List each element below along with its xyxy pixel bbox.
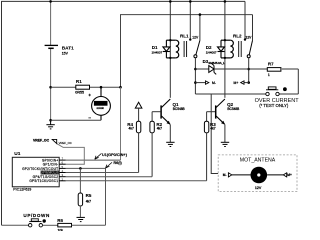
svg-text:4k7: 4k7 [210,127,215,131]
diode D1 (flyback) [163,40,170,58]
wire pin5 GP2 row [66,168,106,225]
svg-text:GP3/MCLR: GP3/MCLR [40,171,59,175]
svg-text:M+: M+ [287,173,292,177]
svg-text:R6(t): R6(t) [114,161,122,165]
pin stubs U1 [59,160,66,181]
svg-text:12V: 12V [246,36,253,40]
wire switch to R6 [43,224,58,226]
relay RL2 pivot column (M+ net) [248,58,250,84]
net flag M+ [244,82,249,84]
svg-text:1: 1 [268,73,270,77]
svg-text:1N4007: 1N4007 [206,51,217,55]
transistor Q1 [162,99,171,108]
relay RL1 coil [166,40,186,58]
svg-text:12V: 12V [192,35,199,39]
svg-text:VREF_OC: VREF_OC [33,139,50,143]
meter M1 [92,87,111,120]
relay RL1 pivot column (M- net) [194,58,196,94]
motor [250,167,267,184]
svg-text:VREF_OC: VREF_OC [59,141,72,145]
svg-text:12V: 12V [255,186,262,190]
transistor Q2 [216,99,225,108]
svg-text:MOT_ANTENA: MOT_ANTENA [240,157,276,163]
svg-text:U1(GP0/CIN+): U1(GP0/CIN+) [102,153,127,157]
wire R6 to pin5 column [72,224,106,226]
switch UP/DOWN [29,219,43,227]
port M- [228,173,231,177]
svg-text:SMBJ5.0A_L: SMBJ5.0A_L [208,61,225,65]
relay RL2 contact left [244,1,246,39]
wire pin7 GP0 row [66,159,121,161]
svg-text:15V: 15V [62,52,69,56]
resistor R3 [206,112,208,122]
svg-text:BC548B: BC548B [173,107,185,111]
svg-text:R7: R7 [268,61,274,66]
ground (battery) [46,120,54,129]
svg-text:R6: R6 [57,218,63,223]
node battery top [49,0,52,3]
svg-text:4k7: 4k7 [86,199,91,203]
resistor R5 [79,168,81,193]
resistor R1 [76,85,90,89]
wire R7 row [249,68,268,70]
svg-text:BAT1: BAT1 [62,46,74,51]
pin GP3/MCLR highlighted [41,171,59,175]
net flag M- [195,82,205,84]
svg-text:M-: M- [212,81,216,85]
MOT_ANTENA block [218,155,297,192]
svg-text:0R55: 0R55 [75,91,84,95]
relay RL1 arm [196,40,200,54]
svg-text:GP5/T1CKI/OSC1: GP5/T1CKI/OSC1 [29,179,58,183]
wire second rail (motor supply) [121,15,253,88]
wire meter return [51,119,101,121]
callout arrow U1(GP0/CIN+) [95,153,102,159]
relay RL2 coil [221,40,241,58]
svg-text:R5: R5 [86,193,92,198]
wire Q1 emitter [169,124,171,142]
wire pin4 GP3 row [66,172,139,174]
svg-text:R1: R1 [76,79,82,84]
switch OVER CURRENT [266,87,279,96]
wire Q2 emitter [224,124,226,142]
diode D2 (flyback) [218,40,225,58]
relay RL2 coil column [224,1,226,97]
IC U1 PIC12F629 [12,157,59,187]
resistor R6 [58,223,72,227]
svg-text:D1: D1 [152,45,158,50]
svg-text:PIC12F629: PIC12F629 [13,188,31,192]
relay RL1 contact left [189,1,191,39]
svg-text:(* TEST ONLY): (* TEST ONLY) [259,103,289,108]
resistor R2 [151,112,153,122]
port M+ [283,173,286,177]
node battery/R1 [49,86,52,89]
wire shunt row [51,86,76,88]
wire top +15V rail [2,1,246,225]
svg-text:RL2: RL2 [233,33,242,38]
relay RL1 contact right [199,15,201,41]
node meter top [100,86,103,89]
battery BAT1 [50,1,52,120]
wire bottom rail to switch [2,224,29,226]
node battery/meter-return [49,119,52,122]
resistor R4 + VCC arrow [135,102,142,108]
ground (Q2 emitter) [221,142,229,146]
wire M- column [211,94,218,174]
svg-text:D2: D2 [206,45,212,50]
svg-text:10k: 10k [58,228,64,231]
wire pin6 VREF loop [57,144,85,165]
resistor R7 [267,68,281,72]
svg-text:4k7: 4k7 [157,127,162,131]
relay RL2 arm [249,40,252,54]
ground (Q1 emitter) [166,142,174,146]
diode D3 TVS [209,64,216,75]
relay RL2 contact right [252,15,254,41]
U1 pin numbers 7,6,5,4,3,2 [62,157,64,182]
wire pin2 GP5 row [66,180,207,182]
node sense column [119,86,122,89]
svg-text:M-: M- [223,173,227,177]
net flag VREF_OC [52,139,57,143]
relay RL1 coil column [169,1,171,97]
svg-text:1N4007: 1N4007 [152,51,163,55]
svg-text:RL1: RL1 [180,33,189,38]
ground (R5) [77,217,85,221]
wire D3 bus [195,68,208,70]
svg-text:U1: U1 [14,151,20,157]
svg-text:BC548B: BC548B [227,107,239,111]
svg-text:4k7: 4k7 [129,127,134,131]
svg-text:M+: M+ [234,81,239,85]
wire sense column down to pin7 [120,87,122,160]
wire pin3 GP4 row [66,176,152,178]
svg-text:UP/DOWN: UP/DOWN [23,213,50,218]
svg-text:mAdc: mAdc [97,106,105,110]
wire test-switch row [195,93,265,95]
wire R7 right leg [297,69,299,94]
callout arrow R6(t) [106,162,112,168]
U1 pin name labels [22,159,58,184]
